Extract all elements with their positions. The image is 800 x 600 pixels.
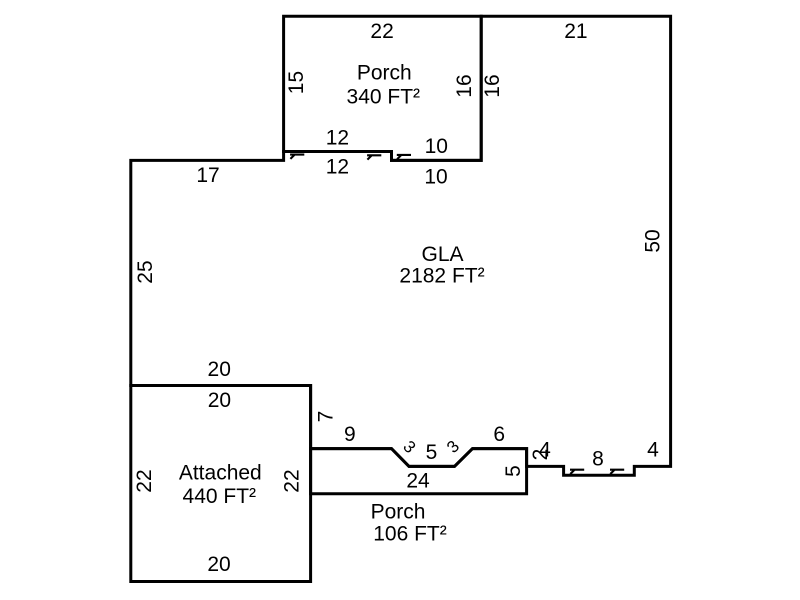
dim 1 step8 right xyxy=(610,470,624,474)
svg-text:440 FT²: 440 FT² xyxy=(183,485,257,508)
porch 340 outline xyxy=(284,16,482,160)
svg-text:2: 2 xyxy=(529,449,552,461)
svg-text:7: 7 xyxy=(314,411,337,423)
attached garage outline xyxy=(131,386,311,582)
svg-text:17: 17 xyxy=(196,164,219,187)
svg-text:50: 50 xyxy=(642,229,665,252)
porch 106 outline xyxy=(311,449,527,494)
svg-text:Porch: Porch xyxy=(371,501,426,524)
svg-text:340 FT²: 340 FT² xyxy=(347,86,421,109)
svg-text:16: 16 xyxy=(481,74,504,97)
svg-text:4: 4 xyxy=(647,438,659,461)
svg-text:22: 22 xyxy=(370,20,393,43)
svg-text:25: 25 xyxy=(134,260,157,283)
svg-text:22: 22 xyxy=(281,469,304,492)
dim 1 step8 left xyxy=(570,470,584,474)
svg-text:10: 10 xyxy=(424,166,447,189)
svg-text:15: 15 xyxy=(285,71,308,94)
GLA outline xyxy=(131,16,671,475)
svg-text:12: 12 xyxy=(326,126,349,149)
svg-text:22: 22 xyxy=(133,469,156,492)
svg-text:5: 5 xyxy=(426,441,438,464)
svg-text:2182 FT²: 2182 FT² xyxy=(399,265,484,288)
dim 1 step12 gla side xyxy=(397,155,411,159)
svg-text:20: 20 xyxy=(208,389,231,412)
svg-text:GLA: GLA xyxy=(421,243,463,266)
svg-text:106 FT²: 106 FT² xyxy=(373,523,447,546)
svg-text:20: 20 xyxy=(208,358,231,381)
svg-text:8: 8 xyxy=(592,448,604,471)
svg-text:6: 6 xyxy=(493,423,505,446)
svg-text:9: 9 xyxy=(344,423,356,446)
svg-text:10: 10 xyxy=(425,135,448,158)
svg-text:20: 20 xyxy=(207,553,230,576)
svg-text:16: 16 xyxy=(453,74,476,97)
svg-text:24: 24 xyxy=(406,469,430,492)
dim 1 porch left step xyxy=(290,155,304,159)
svg-text:5: 5 xyxy=(502,465,525,477)
svg-text:21: 21 xyxy=(564,20,587,43)
svg-text:12: 12 xyxy=(326,156,349,179)
svg-text:Porch: Porch xyxy=(357,62,412,85)
dim 1 step12 porch side xyxy=(367,155,381,159)
svg-text:Attached: Attached xyxy=(179,462,262,485)
